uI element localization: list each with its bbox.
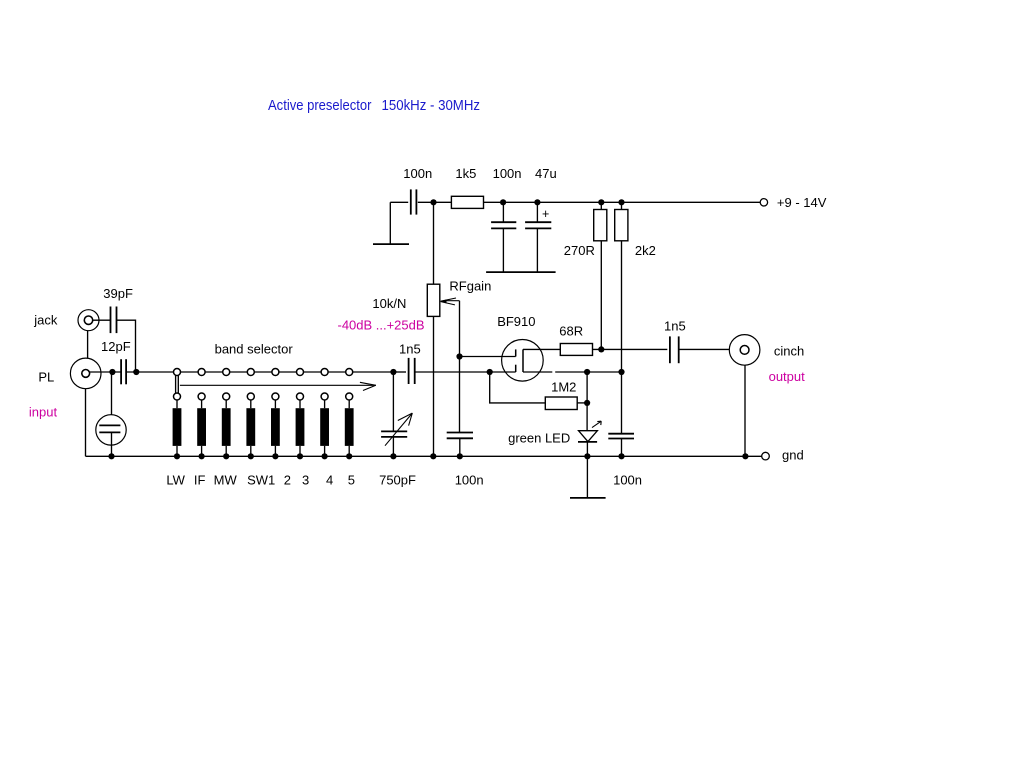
svg-text:1n5: 1n5 [399, 341, 421, 356]
trimmer capacitor (input) [96, 372, 126, 456]
svg-text:1n5: 1n5 [664, 319, 686, 334]
svg-text:-40dB ...+25dB: -40dB ...+25dB [338, 317, 425, 332]
ground bar LED [570, 497, 606, 499]
capacitor C 100n (series, top) [403, 166, 432, 215]
wire ground stub drop [389, 202, 391, 244]
inductor SW1 [246, 400, 275, 488]
resistor 1k5 [451, 166, 483, 208]
inductor LW [166, 400, 185, 488]
ground bar mid [486, 271, 555, 273]
svg-text:1k5: 1k5 [455, 166, 476, 181]
svg-text:+: + [542, 207, 549, 221]
wire 1n5 to cinch [679, 348, 730, 350]
svg-text:band selector: band selector [215, 342, 294, 357]
wiper arrow [180, 384, 376, 386]
terminal gnd [762, 448, 804, 463]
svg-text:MW: MW [214, 472, 238, 487]
svg-text:2: 2 [284, 472, 291, 487]
svg-text:4: 4 [326, 472, 333, 487]
inductor SW5 [345, 400, 355, 488]
svg-text:5: 5 [348, 472, 355, 487]
drain lead [523, 348, 560, 350]
wire power rail [390, 201, 760, 203]
svg-text:2k2: 2k2 [635, 243, 656, 258]
band selector [126, 342, 393, 401]
ground rail [86, 455, 746, 457]
node gate1 dot [456, 353, 462, 359]
svg-text:cinch: cinch [774, 343, 804, 358]
wire jack-PL [87, 331, 89, 359]
connector cinch [729, 335, 804, 366]
svg-text:39pF: 39pF [103, 286, 133, 301]
svg-text:1M2: 1M2 [551, 380, 576, 395]
coil terminals bottom row [174, 393, 181, 400]
svg-text:100n: 100n [455, 472, 484, 487]
wire to gnd terminal [745, 455, 761, 457]
wire double link position 1 [175, 376, 177, 394]
svg-text:input: input [29, 405, 58, 420]
resistor 2k2 [615, 202, 656, 372]
svg-text:68R: 68R [559, 323, 583, 338]
inductor SW4 [320, 400, 333, 488]
svg-text:IF: IF [194, 472, 206, 487]
svg-text:12pF: 12pF [101, 339, 131, 354]
potentiometer 10k/N [338, 202, 492, 456]
svg-text:green LED: green LED [508, 430, 570, 445]
gate 1 bar [515, 349, 517, 356]
connector jack [33, 310, 99, 331]
inductor SW2 [271, 400, 291, 488]
node pot bottom dot [430, 453, 436, 459]
svg-text:150kHz - 30MHz: 150kHz - 30MHz [382, 98, 481, 114]
capacitor C 47u electrolytic [525, 166, 557, 272]
svg-text:PL: PL [38, 369, 54, 384]
capacitor 1n5 (output) [664, 319, 686, 364]
svg-text:270R: 270R [564, 243, 595, 258]
capacitor 1n5 (gate) [399, 341, 421, 384]
inductor IF [194, 400, 206, 488]
capacitor 12pF [101, 339, 131, 384]
capacitor 100n (output side) [608, 372, 642, 487]
transistor BF910 dual-gate MOSFET [497, 314, 621, 381]
wire PL to 12pF [90, 371, 122, 373]
inductor SW3 [296, 400, 310, 488]
svg-text:750pF: 750pF [379, 472, 416, 487]
wire selector chain [126, 371, 393, 373]
wire PL down to ground rail [85, 389, 87, 457]
svg-text:3: 3 [302, 472, 309, 487]
svg-text:100n: 100n [403, 166, 432, 181]
node pot top dot [430, 199, 436, 205]
wire cinch down to gnd [744, 365, 746, 456]
node 750pF top dot [390, 369, 396, 375]
node A dot [109, 369, 115, 375]
node dots top rail [500, 199, 506, 205]
gate 2 bar [515, 365, 517, 372]
wire jack to C39p [93, 319, 111, 321]
LED green [508, 421, 605, 498]
channel [522, 349, 524, 372]
capacitor 39pF [103, 286, 133, 333]
LED arrows [592, 421, 601, 427]
node B dot [133, 369, 139, 375]
resistor 270R [564, 202, 607, 349]
ground bar left [373, 243, 409, 245]
svg-text:BF910: BF910 [497, 314, 535, 329]
inductor MW [214, 400, 238, 488]
capacitor 100n (wiper decoupling) [447, 433, 484, 488]
svg-text:Active preselector: Active preselector [268, 98, 372, 114]
wire LED to ground symbol [586, 456, 588, 498]
svg-text:100n: 100n [493, 166, 522, 181]
node trimmer bottom dot [108, 453, 114, 459]
svg-text:SW1: SW1 [247, 472, 275, 487]
wire 1n5 to gate2 [415, 371, 516, 373]
source lead [523, 371, 552, 373]
capacitor C 100n (shunt) [491, 166, 521, 272]
connector PL [38, 358, 101, 389]
wire node to 1n5 [393, 371, 408, 373]
svg-text:LW: LW [166, 472, 185, 487]
switch contacts top row [174, 369, 181, 376]
svg-text:jack: jack [33, 312, 58, 327]
svg-text:gnd: gnd [782, 448, 804, 463]
svg-text:47u: 47u [535, 166, 557, 181]
svg-text:100n: 100n [613, 472, 642, 487]
svg-text:+9 - 14V: +9 - 14V [777, 195, 827, 210]
svg-text:10k/N: 10k/N [372, 296, 406, 311]
terminal +9-14V [760, 195, 827, 210]
wire wiper down [459, 301, 461, 433]
svg-text:output: output [769, 369, 806, 384]
wire gate1 [460, 356, 516, 358]
wire source node down to LED [586, 372, 588, 431]
resistor 68R [559, 323, 670, 355]
resistor 1M2 [487, 369, 591, 410]
variable capacitor 750pF [379, 372, 416, 487]
wiper arrow [440, 300, 447, 304]
svg-text:RFgain: RFgain [449, 278, 491, 293]
wire C39p to node B [117, 320, 136, 372]
